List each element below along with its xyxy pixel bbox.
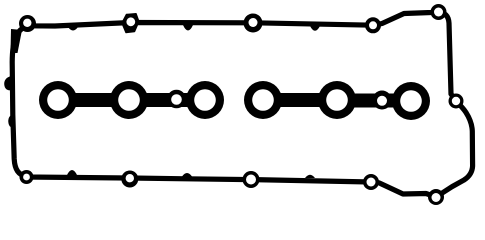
seal ring 3 outer (186, 81, 224, 119)
bolt hole bottom right outer (428, 189, 444, 205)
bolt hole bottom center outer (243, 171, 260, 188)
bolt hole bottom mid-left inner (126, 174, 134, 182)
bottom-edge tick 1 (67, 170, 77, 175)
bolt hole bottom mid-right outer (363, 174, 379, 190)
top-edge tick 2 (183, 25, 193, 31)
bolt hole top center inner (249, 18, 258, 27)
seal ring 1 inner (47, 89, 69, 111)
bolt hole top far-right inner (434, 8, 443, 17)
connecting bar c2-c3 (129, 93, 205, 107)
bolt hole top far-right outer (431, 4, 447, 20)
bolt hole bottom-left corner outer (20, 170, 34, 184)
small hole boss right (373, 91, 392, 110)
small hole boss left (167, 90, 186, 109)
seal ring 4 inner (252, 89, 274, 111)
bolt hole right side inner (452, 97, 460, 105)
top-edge tick 1 (68, 27, 78, 31)
seal ring 5 inner (326, 89, 348, 111)
bolt hole top right inner (369, 21, 377, 29)
seal ring 6 inner (400, 90, 422, 112)
left-edge pad below top corner (11, 29, 23, 53)
bolt hole bottom center inner (246, 175, 256, 185)
seal ring 5 outer (318, 81, 356, 119)
left-edge bump upper (4, 76, 12, 90)
connecting bar c5-c6 (337, 94, 411, 108)
seal ring 2 inner (118, 89, 140, 111)
left-edge bump lower (8, 114, 14, 128)
seal ring 6 outer (392, 82, 430, 120)
seal ring 1 outer (39, 81, 77, 119)
bolt hole top diamond inner (126, 17, 135, 26)
connecting bar c4-c5 (263, 93, 337, 107)
bolt hole right side outer (449, 94, 464, 109)
bottom-edge tick 2 (182, 173, 192, 177)
top-edge tick 3 (310, 26, 320, 31)
bottom-edge tick 3 (305, 175, 315, 178)
small hole left (171, 94, 182, 105)
connecting bar c1-c2 (58, 93, 129, 107)
bolt hole bottom mid-left outer (121, 171, 138, 188)
bolt hole top center outer (244, 14, 263, 33)
bolt hole top-left corner inner (23, 19, 31, 27)
bolt hole top diamond outer (122, 14, 139, 33)
bolt hole top right outer (365, 17, 381, 33)
bolt hole bottom mid-right inner (367, 178, 376, 187)
seal ring 2 outer (110, 81, 148, 119)
seal ring 4 outer (244, 81, 282, 119)
small hole right (377, 96, 387, 106)
gasket outline (12, 12, 472, 197)
seal ring 3 inner (194, 89, 216, 111)
bolt hole bottom-left corner inner (23, 174, 30, 181)
bolt hole top-left corner outer (19, 15, 36, 32)
bolt hole bottom right inner (432, 193, 441, 202)
